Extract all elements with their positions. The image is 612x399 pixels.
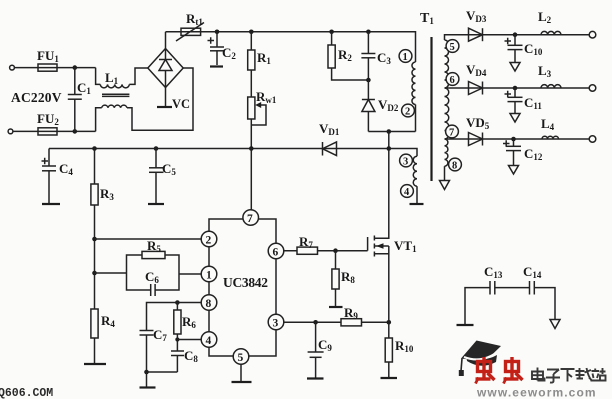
choke L1 top winding	[100, 84, 129, 87]
ground arrow C11	[510, 114, 520, 123]
diode VD3	[469, 28, 483, 41]
plus mark C12	[503, 140, 510, 146]
svg-text:C14: C14	[523, 264, 542, 280]
svg-text:R7: R7	[299, 234, 313, 250]
junction bus / R3	[92, 146, 97, 151]
bridge VC internal diode	[165, 49, 167, 60]
svg-text:R1: R1	[257, 50, 271, 66]
svg-text:VD2: VD2	[378, 97, 399, 113]
svg-text:R2: R2	[338, 47, 352, 63]
pin label 2	[402, 104, 415, 117]
junction pin3 / C9	[313, 320, 318, 325]
pin label 6	[446, 73, 459, 86]
wire C13 C14 link	[465, 288, 555, 325]
logo char chong 1	[476, 357, 495, 384]
plus mark C2	[208, 37, 215, 43]
choke L1 bottom winding lead right around to bridge	[127, 68, 193, 130]
svg-text:C11: C11	[524, 95, 542, 111]
resistor R3	[91, 184, 98, 205]
wire junction to R8	[335, 251, 337, 269]
svg-text:C1: C1	[77, 80, 91, 96]
pin label 8	[449, 158, 462, 171]
svg-text:R9: R9	[344, 305, 358, 321]
logo tassel cord	[461, 359, 462, 372]
capacitor C3	[367, 32, 369, 54]
T1 primary winding 1-2	[412, 62, 416, 104]
ground bar C5	[148, 203, 164, 205]
ground bar C13 side	[457, 324, 474, 326]
pin 8	[201, 295, 217, 311]
resistor R8	[332, 269, 339, 289]
svg-text:Rw1: Rw1	[256, 89, 277, 105]
wire R1 to Rw1	[250, 70, 252, 97]
wire C8 bottom to C7 bottom	[147, 371, 178, 373]
svg-text:C10: C10	[524, 41, 543, 57]
svg-text:VC: VC	[172, 97, 190, 111]
ground arrow C12	[509, 166, 519, 175]
svg-text:C2: C2	[222, 45, 236, 61]
wire node to R5C6 frame	[95, 272, 127, 274]
VT1 source lead	[374, 246, 388, 322]
wire rail to R1	[250, 32, 252, 50]
junction bottom line / C1	[73, 129, 78, 134]
svg-text:8: 8	[206, 298, 212, 310]
svg-text:FU2: FU2	[37, 111, 59, 127]
R5 C6 parallel frame	[127, 255, 180, 290]
op-amp U1 UC3842 body	[209, 219, 276, 356]
svg-text:6: 6	[273, 247, 279, 259]
fuse FU1	[38, 64, 57, 71]
capacitor C8	[171, 350, 184, 352]
junction bus / drain	[387, 146, 392, 151]
svg-text:L4: L4	[541, 116, 555, 132]
bridge rectifier VC body	[148, 49, 183, 88]
svg-text:VD3: VD3	[466, 8, 487, 24]
svg-text:R4: R4	[101, 313, 115, 329]
svg-text:C9: C9	[318, 337, 332, 353]
capacitor C9	[315, 322, 317, 352]
wire pin4 lead to ground	[416, 186, 418, 204]
svg-text:Q606.COM: Q606.COM	[0, 387, 53, 399]
ground bar pin5	[232, 381, 252, 383]
svg-text:L2: L2	[538, 9, 552, 25]
capacitor C5	[155, 149, 157, 168]
wire junction to R10	[388, 322, 390, 338]
wire frame to pin1	[179, 273, 209, 275]
svg-text:FU1: FU1	[37, 48, 59, 64]
junction row3 / C12	[511, 137, 516, 142]
svg-text:L3: L3	[538, 63, 552, 79]
junction R6 / pin4	[175, 337, 179, 341]
pin 7	[243, 210, 259, 226]
junction gate / R8	[333, 248, 338, 253]
svg-text:www.eeworm.com: www.eeworm.com	[476, 386, 597, 399]
capacitor C13	[489, 281, 491, 295]
diode VD1 on bus	[322, 142, 324, 156]
resistor R6	[174, 310, 181, 334]
svg-text:7: 7	[247, 213, 253, 225]
wire main horizontal bus	[49, 149, 417, 157]
capacitor C6	[151, 288, 155, 293]
wire junction to R6	[176, 303, 178, 311]
wire pin5 to ground	[240, 364, 242, 382]
svg-text:6: 6	[450, 75, 455, 86]
ground bar C9	[307, 377, 324, 379]
svg-text:Rt1: Rt1	[186, 11, 203, 27]
svg-text:C6: C6	[145, 269, 159, 285]
svg-text:UC3842: UC3842	[223, 275, 268, 290]
resistor R10	[385, 338, 392, 362]
pin 5	[233, 349, 249, 365]
ground bar R4	[84, 363, 106, 365]
wire link to drain bus	[388, 132, 390, 149]
VT1 channel segments	[373, 236, 375, 257]
logo text dianzi xiazaizhan	[532, 368, 606, 383]
svg-text:VD5: VD5	[466, 115, 490, 131]
logo char chong 2	[504, 357, 523, 384]
wire R8 to ground	[335, 289, 337, 307]
svg-text:R8: R8	[341, 269, 355, 285]
capacitor C11	[514, 88, 516, 97]
wire pin8 to C7	[147, 303, 210, 331]
svg-text:4: 4	[404, 187, 410, 198]
wire pin2 lead	[415, 105, 417, 132]
wire Rw1 to bus	[250, 119, 252, 149]
svg-text:AC220V: AC220V	[11, 90, 62, 105]
junction rail / R1	[249, 30, 254, 35]
T1 primary winding 3-4	[413, 156, 417, 186]
resistor R5	[142, 251, 165, 258]
capacitor C7	[140, 330, 154, 332]
svg-text:R3: R3	[100, 186, 114, 202]
junction pin8 wire / R6	[175, 300, 180, 305]
junction rail / C2	[215, 30, 220, 35]
capacitor C4	[48, 149, 50, 167]
svg-text:C7: C7	[153, 327, 167, 343]
wire R3 to R4	[94, 205, 96, 309]
bridge plus stem to top rail	[165, 32, 167, 49]
junction row1 / C10	[513, 32, 518, 37]
wire bus to R3	[94, 149, 96, 185]
plus mark C4	[42, 158, 49, 164]
wire junction to pin4	[177, 339, 209, 341]
wire rail to R2	[331, 32, 333, 45]
thermistor Rt1	[181, 28, 201, 35]
VT1 body tap with arrow	[374, 245, 388, 247]
choke L1 top winding lead right to bridge	[129, 68, 148, 84]
wire node to ground	[146, 372, 148, 388]
svg-text:7: 7	[449, 128, 454, 139]
diode VD5	[469, 133, 483, 146]
transistor Q1 VT1 gate bar	[367, 237, 369, 251]
junction snubber node	[366, 78, 371, 83]
capacitor C14	[529, 281, 531, 295]
wire secondary bottom lead	[444, 166, 446, 180]
ground arrow secondary	[440, 181, 450, 190]
resistor R7	[297, 247, 318, 254]
wire R10 to ground	[388, 362, 390, 378]
resistor R1	[248, 50, 255, 70]
wire node to pin2	[95, 238, 210, 240]
potentiometer Rw1	[248, 97, 255, 119]
VT1 drain lead	[374, 149, 388, 239]
svg-text:C12: C12	[524, 146, 543, 162]
capacitor C1	[74, 68, 76, 95]
svg-text:1: 1	[206, 270, 212, 282]
svg-text:T1: T1	[420, 11, 434, 26]
svg-text:VT1: VT1	[394, 238, 417, 254]
junction snubber return / drain link	[387, 129, 392, 134]
output terminal row2	[589, 85, 596, 92]
junction row2 / C11	[513, 86, 518, 91]
junction source / R9 / R10	[387, 320, 392, 325]
wire R2 bottom to snubber node	[332, 68, 369, 80]
ground bar pin4	[410, 203, 424, 205]
logo graduation cap board	[461, 341, 501, 362]
svg-text:R6: R6	[182, 314, 196, 330]
junction top line / C1	[73, 65, 78, 70]
wire +HV top rail	[166, 32, 416, 62]
svg-text:C4: C4	[59, 161, 73, 177]
ground arrow C10	[510, 63, 520, 72]
pin label 7	[446, 125, 459, 138]
choke L1 bottom winding lead left	[96, 108, 102, 132]
pin label 1	[399, 50, 412, 63]
ground bar C7 C8	[140, 386, 156, 388]
pin 3	[268, 314, 284, 330]
svg-text:C5: C5	[162, 161, 176, 177]
ground bar R10	[381, 377, 398, 379]
junction bus / R1 pin7	[249, 146, 254, 151]
inductor L3	[541, 85, 561, 88]
output terminal row3	[589, 136, 596, 143]
ground bar R8	[329, 306, 343, 308]
resistor R2	[328, 45, 335, 68]
svg-text:C13: C13	[484, 264, 503, 280]
wire pin6 to gate	[283, 250, 367, 252]
wire output row3	[445, 138, 590, 140]
capacitor C2	[216, 32, 218, 47]
logo tassel knob	[459, 370, 464, 376]
pin 4	[201, 332, 217, 348]
svg-text:C8: C8	[184, 348, 198, 364]
svg-text:4: 4	[206, 335, 212, 347]
wire output row2	[445, 87, 590, 89]
inductor L4	[542, 136, 559, 139]
choke L1 core	[102, 93, 129, 95]
logo cap highlight swoosh	[464, 351, 499, 359]
inductor L2	[541, 31, 561, 34]
junction rail / R2	[329, 30, 334, 35]
input terminal N (AC neutral)	[8, 129, 13, 134]
ground bar under bridge	[157, 106, 172, 108]
svg-text:2: 2	[405, 107, 410, 118]
svg-text:2: 2	[206, 235, 212, 247]
fuse FU2	[38, 128, 57, 135]
wire output row1	[445, 35, 590, 40]
ground bar C2	[210, 65, 223, 67]
plus mark C10	[505, 38, 512, 44]
wire R4 to ground	[94, 338, 96, 364]
svg-text:5: 5	[450, 42, 455, 53]
svg-text:VD1: VD1	[319, 121, 340, 137]
ground bar C4	[42, 203, 60, 205]
logo cap base	[466, 353, 497, 366]
svg-text:5: 5	[238, 352, 244, 364]
junction rail / C3	[366, 30, 371, 35]
svg-text:3: 3	[273, 318, 279, 330]
choke L1 top winding lead left	[96, 68, 101, 85]
wire bus to pin7	[250, 149, 252, 213]
junction bus / C5	[154, 146, 159, 151]
pin 2	[201, 231, 217, 247]
bridge minus stem	[165, 88, 167, 108]
wire pin3 row	[283, 321, 389, 323]
T1 secondary winding	[445, 40, 449, 166]
junction divider / R5C6	[92, 271, 97, 276]
junction divider / pin2	[92, 237, 97, 242]
svg-text:R5: R5	[147, 238, 161, 254]
svg-text:8: 8	[452, 161, 457, 172]
svg-text:L1: L1	[105, 70, 119, 86]
plus mark C11	[505, 91, 512, 97]
diode VD4	[469, 82, 483, 95]
wire terminal to FU1	[14, 67, 95, 69]
T1 core	[430, 37, 432, 181]
pin 6	[268, 243, 284, 259]
capacitor C10	[514, 35, 516, 46]
svg-text:R10: R10	[395, 338, 414, 354]
svg-text:C3: C3	[377, 50, 391, 66]
output terminal row1	[589, 31, 596, 38]
svg-text:3: 3	[403, 157, 408, 168]
pin label 4	[401, 185, 414, 198]
resistor R9	[341, 319, 362, 326]
wire snubber return to xfmr pin2	[368, 131, 415, 133]
diode VD2	[367, 80, 369, 100]
pin label 5	[446, 40, 459, 53]
choke L1 bottom winding	[102, 105, 127, 108]
wire terminal to FU2	[13, 130, 96, 132]
svg-text:VD4: VD4	[466, 62, 487, 78]
resistor R4	[91, 309, 98, 338]
wire R6 to C8	[176, 334, 178, 351]
ground arrow C14 side	[550, 320, 560, 329]
capacitor C12	[513, 139, 515, 146]
pin label 3	[400, 154, 413, 167]
pin 1	[201, 266, 217, 282]
junction C7/C8 ground node	[144, 370, 149, 375]
svg-text:1: 1	[403, 52, 408, 63]
input terminal L (AC line)	[10, 65, 15, 70]
